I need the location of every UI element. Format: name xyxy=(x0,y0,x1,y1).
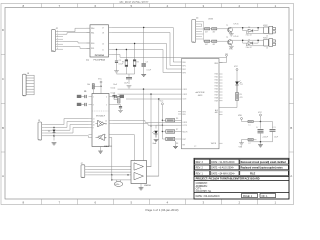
transistor Q2 xyxy=(222,40,233,45)
wire crystal top rail xyxy=(112,179,131,181)
connector J4 pins xyxy=(196,22,200,40)
resistor R3 vertical xyxy=(122,50,128,75)
inductor L2 xyxy=(248,138,257,144)
svg-text:ADDRESS:: ADDRESS: xyxy=(196,185,208,188)
junction dot C2 xyxy=(116,49,117,50)
ground below C4 xyxy=(127,86,132,88)
junction dot corner A xyxy=(143,88,144,89)
connector J3 xyxy=(38,122,42,140)
capacitor C13 electrolytic xyxy=(256,127,269,142)
junction dot bottom xyxy=(260,141,262,143)
row2 return wire xyxy=(246,43,263,46)
bottom rail xyxy=(248,141,273,143)
svg-text:10: 10 xyxy=(93,124,95,126)
resistor R11a row2 xyxy=(204,40,210,46)
connector J7 xyxy=(81,165,85,178)
junction dot J3.5 xyxy=(53,135,55,137)
svg-text:CLKI: CLKI xyxy=(183,99,187,101)
svg-text:DATE: <6-AUG-2004>: DATE: <6-AUG-2004> xyxy=(211,167,234,170)
Q1 emitter ground xyxy=(229,34,234,36)
IC U2 driver triangle 1 xyxy=(98,120,105,127)
wire U2 pin down to U4 xyxy=(109,135,135,161)
junction dot corner C xyxy=(158,98,159,99)
svg-text:17: 17 xyxy=(102,27,104,29)
svg-text:fLPuS: fLPuS xyxy=(234,36,240,38)
IC U2 pin labels xyxy=(93,96,107,139)
IC U1 left pin stubs xyxy=(87,28,91,48)
wire bus3 xyxy=(112,44,182,70)
wire J3.5 gnd xyxy=(45,136,54,141)
junction dot R3 xyxy=(126,49,127,50)
resistor R10a row1 xyxy=(204,28,210,34)
page cell box xyxy=(242,194,258,198)
rev row 1 text xyxy=(196,161,287,164)
wire bus4 xyxy=(112,50,182,73)
wire J7.3 to U4 xyxy=(88,171,131,173)
transistor Q1 xyxy=(222,27,233,32)
svg-text:PROJECT: PIC16/24 TURNTABLE: PROJECT: PIC16/24 TURNTABLE/INTERFACE BO… xyxy=(196,178,260,181)
zone letters right xyxy=(290,28,293,178)
resistor R12 vertical xyxy=(118,97,120,103)
svg-text:VCC: VCC xyxy=(98,79,103,81)
svg-text:RB0: RB0 xyxy=(91,43,94,45)
sheet outer border xyxy=(1,4,294,205)
IC U2 internal split xyxy=(92,110,109,112)
wire U2 R1IN to U3 xyxy=(113,124,182,126)
svg-text:3: 3 xyxy=(93,104,94,106)
svg-text:13: 13 xyxy=(105,123,107,125)
rail joining R3 R4 xyxy=(117,74,135,76)
svg-text:VCC: VCC xyxy=(234,66,239,68)
svg-text:COUNTRY: NL: COUNTRY: NL xyxy=(196,191,212,193)
connector J2 pins xyxy=(56,32,64,50)
svg-text:RA0: RA0 xyxy=(91,27,94,30)
svg-text:RF1: RF1 xyxy=(183,65,186,67)
junction dot corner B xyxy=(150,93,151,94)
svg-text:REV: 1: REV: 1 xyxy=(196,173,204,175)
svg-text:11: 11 xyxy=(102,49,104,51)
svg-text:COMPANY:: COMPANY: xyxy=(196,182,208,185)
IC U2 left pin stubs xyxy=(89,97,93,138)
resistor R4 vertical xyxy=(133,44,139,75)
svg-text:5: 5 xyxy=(106,104,107,106)
connector J8 body xyxy=(23,74,27,96)
svg-text:8: 8 xyxy=(105,137,106,139)
wire J3.3 to U2 xyxy=(45,125,89,131)
svg-text:RF5: RF5 xyxy=(183,114,186,116)
svg-text:11: 11 xyxy=(93,118,95,120)
svg-text:HDR2: HDR2 xyxy=(263,37,268,39)
svg-text:D1: D1 xyxy=(150,126,152,128)
svg-text:Replaced overall (optocoupler): Replaced overall (optocoupler) notes xyxy=(241,167,284,170)
row1 top wire xyxy=(235,28,263,31)
connector J3 pins xyxy=(42,125,45,136)
wire J3.2 to U2 xyxy=(45,122,89,128)
resistor R10b row1 xyxy=(210,28,222,34)
rev row 2 text xyxy=(196,167,284,170)
wire bus2 xyxy=(112,33,182,66)
resistor R7 xyxy=(162,129,181,133)
svg-text:4MHz: 4MHz xyxy=(115,184,119,186)
ground bottom rail xyxy=(258,145,263,147)
svg-text:J6: J6 xyxy=(266,48,268,50)
svg-text:Page 1 of 1 (04-jan-2013): Page 1 of 1 (04-jan-2013) xyxy=(146,208,179,212)
svg-text:R8: R8 xyxy=(176,143,178,145)
svg-text:T2: T2 xyxy=(226,37,228,39)
rev row 3 cells xyxy=(195,171,289,176)
ground J3 xyxy=(52,143,57,145)
svg-text:18: 18 xyxy=(102,32,104,34)
svg-text:D2: D2 xyxy=(241,84,243,86)
AVDD stem to U3 xyxy=(219,56,227,62)
ground U4 xyxy=(139,188,144,190)
svg-text:dsPIC30F: dsPIC30F xyxy=(195,92,205,94)
inductor L1 xyxy=(248,120,261,126)
svg-text:10k: 10k xyxy=(87,84,90,86)
svg-text:REV: 2: REV: 2 xyxy=(196,168,204,170)
relay box row2 xyxy=(263,37,268,46)
svg-text:+100uF: +100uF xyxy=(262,137,269,139)
svg-text:D5: D5 xyxy=(48,131,50,133)
capacitor C7 left of U2 xyxy=(77,103,86,106)
VCC node symbol xyxy=(258,112,263,122)
svg-text:RD5: RD5 xyxy=(215,89,218,91)
svg-text:A: A xyxy=(290,174,292,178)
capacitor C8 right of U2 xyxy=(115,95,124,98)
svg-text:B: B xyxy=(290,126,292,130)
wire U2 pin down to crystal rail xyxy=(109,138,112,180)
svg-text:VDD: VDD xyxy=(238,115,243,117)
svg-text:470: 470 xyxy=(240,97,243,99)
svg-text:RF2: RF2 xyxy=(183,69,186,71)
svg-text:R7: R7 xyxy=(176,129,178,131)
svg-text:RD8: RD8 xyxy=(215,98,218,100)
svg-text:4k7: 4k7 xyxy=(213,44,216,46)
zone tick marks left and right xyxy=(1,55,294,153)
IC U3 extra left stubs xyxy=(178,112,182,115)
Q2 collector wire xyxy=(231,40,235,46)
rev row 3 text xyxy=(196,172,256,175)
connector J4 xyxy=(192,19,196,42)
svg-text:4k7: 4k7 xyxy=(205,31,208,33)
svg-text:74xx 44: 74xx 44 xyxy=(246,35,252,37)
J4 bus verticals xyxy=(200,22,204,42)
wire U3 to U4 corner A xyxy=(118,89,182,160)
company cell xyxy=(196,182,212,193)
svg-text:12: 12 xyxy=(93,121,95,123)
svg-text:MC_98-97 I/U750+ SH/77: MC_98-97 I/U750+ SH/77 xyxy=(120,1,149,4)
svg-text:1: 1 xyxy=(93,96,94,98)
zone numbers bottom xyxy=(22,200,276,204)
capacitor C10 xyxy=(112,93,118,100)
svg-text:T1: T1 xyxy=(226,25,228,27)
AVDD symbol xyxy=(226,49,234,57)
svg-text:RD9: RD9 xyxy=(215,101,218,103)
svg-text:D4: D4 xyxy=(248,39,250,41)
svg-text:OF: 1: OF: 1 xyxy=(262,195,269,198)
IC U4 opamp triangle 2 xyxy=(134,172,144,179)
capacitor C2 xyxy=(115,50,124,67)
svg-text:RD6: RD6 xyxy=(215,92,218,94)
wire J3.5 on to U2 xyxy=(54,136,89,138)
junction dot crystal rail xyxy=(111,179,112,180)
svg-text:RA1: RA1 xyxy=(91,31,94,34)
IC U3 left pin names xyxy=(183,62,189,141)
IC U3 body xyxy=(182,59,220,149)
junction dot MCLR xyxy=(100,86,101,87)
VCC symbol reset xyxy=(160,101,164,105)
svg-text:4k7: 4k7 xyxy=(213,31,216,33)
svg-text:RB1: RB1 xyxy=(91,48,94,50)
svg-text:8: 8 xyxy=(57,48,58,50)
resistor R8 xyxy=(162,137,181,145)
wire J7.1 to U4 xyxy=(88,166,131,168)
capacitor C14 xyxy=(270,127,279,142)
Q2 emitter ground xyxy=(229,46,234,48)
sheet inner border xyxy=(5,8,289,200)
row border lines xyxy=(194,176,289,192)
IC U2 right pin stubs xyxy=(109,97,113,124)
svg-text:RD4: RD4 xyxy=(215,86,218,88)
svg-text:RD1: RD1 xyxy=(215,77,218,79)
IC U4 right pins xyxy=(147,167,159,177)
rev row 2 cells xyxy=(195,165,289,170)
wire U3 to U4 corner B xyxy=(118,94,182,166)
svg-text:R6: R6 xyxy=(176,118,178,120)
svg-text:C#1: C#1 xyxy=(273,127,276,129)
svg-text:7: 7 xyxy=(105,135,106,137)
svg-text:R4: R4 xyxy=(137,62,139,64)
zone numbers top xyxy=(22,4,276,8)
svg-text:B: B xyxy=(2,126,4,130)
IC U1 pin name texts xyxy=(91,27,104,51)
svg-text:RD0: RD0 xyxy=(215,74,218,76)
svg-text:VCC: VCC xyxy=(258,112,263,114)
svg-text:9: 9 xyxy=(93,127,94,129)
IC U1 right pin stubs xyxy=(109,28,113,55)
junction dot on RX wire xyxy=(162,125,163,126)
svg-text:DATE: <11-NOV-2004>: DATE: <11-NOV-2004> xyxy=(211,161,235,164)
svg-text:4: 4 xyxy=(106,96,107,98)
wire J2.1 to U1 xyxy=(63,28,90,32)
wire U3 to U4 corner C xyxy=(126,99,182,176)
svg-text:TxPCS: TxPCS xyxy=(211,143,217,145)
svg-text:RD7: RD7 xyxy=(215,95,218,97)
junction dot C3 xyxy=(143,27,144,28)
plug J6 row2 xyxy=(266,39,276,50)
wire J2.7 to U1 xyxy=(63,47,90,49)
svg-text:PIC16F84: PIC16F84 xyxy=(95,54,105,57)
svg-text:REV: 3: REV: 3 xyxy=(196,162,204,164)
wire VCC to R5 xyxy=(93,85,101,87)
Q1 collector wire xyxy=(231,28,235,34)
svg-text:4k7: 4k7 xyxy=(205,44,208,46)
IC U4 opamp triangle 1 xyxy=(134,163,144,170)
svg-text:C?: C? xyxy=(194,146,196,148)
IC U4 body xyxy=(131,161,147,184)
ground near U3 corner xyxy=(173,146,178,148)
svg-text:FILE: FILE xyxy=(250,172,256,175)
svg-text:RF0: RF0 xyxy=(183,62,186,64)
IC U2 driver triangle 2 xyxy=(98,134,105,141)
resistor R11b row2 xyxy=(210,40,222,46)
connector J8 pin grid xyxy=(26,75,34,95)
plug J5 row1 xyxy=(266,26,276,37)
title block outline xyxy=(194,158,289,199)
svg-text:DATE: <24-MAY-2004>: DATE: <24-MAY-2004> xyxy=(211,172,235,175)
crystal X1 xyxy=(114,180,123,187)
svg-text:C#: C# xyxy=(256,127,258,129)
svg-text:C3: C3 xyxy=(146,61,148,63)
svg-text:OSC1: OSC1 xyxy=(183,89,188,91)
VCC LED xyxy=(234,66,239,82)
diode D5 xyxy=(48,127,55,136)
wire J7.4 to U4 xyxy=(88,174,131,176)
capacitor C9 right of U2 drop xyxy=(113,105,123,111)
resistor R9 vertical xyxy=(219,93,243,108)
ground D1 xyxy=(154,140,159,142)
vertical feed wire xyxy=(161,105,163,139)
junction dots row2 xyxy=(242,39,244,41)
svg-text:IC2(1): IC2(1) xyxy=(111,87,116,89)
capacitor C4 electrolytic xyxy=(124,76,132,84)
svg-text:HDR2: HDR2 xyxy=(263,25,268,27)
capacitor C6 left of U2 xyxy=(77,95,86,98)
AVSS symbol xyxy=(238,140,248,149)
svg-text:L1: L1 xyxy=(249,125,251,127)
svg-text:A: A xyxy=(2,174,4,178)
of cell box xyxy=(260,194,276,198)
wire J3.4 to U2 xyxy=(45,128,89,134)
connector J2 pin numbers xyxy=(57,30,58,50)
svg-text:RD2: RD2 xyxy=(215,80,218,82)
svg-text:LM358: LM358 xyxy=(144,185,151,187)
zone tick marks bottom xyxy=(41,199,257,205)
LED D2 xyxy=(235,81,243,93)
svg-text:MCLR: MCLR xyxy=(183,131,189,133)
wire bus1 xyxy=(112,28,182,63)
top rail xyxy=(261,122,273,129)
LED D1 xyxy=(150,125,162,137)
wire J3.1 to U2 xyxy=(45,119,89,125)
svg-text:C5: C5 xyxy=(84,91,86,93)
svg-text:RF3: RF3 xyxy=(183,72,186,74)
svg-text:Removed circuit (overall) smal: Removed circuit (overall) small clarifie… xyxy=(241,161,287,164)
VDD symbol xyxy=(238,115,248,121)
junction dot VCC node xyxy=(260,121,262,123)
resistor R6 xyxy=(162,118,181,122)
rev row 1 cells xyxy=(195,159,289,164)
IC U2 body xyxy=(92,94,109,147)
svg-text:1SMB: 1SMB xyxy=(208,19,214,21)
ground below C3 xyxy=(141,74,146,76)
svg-text:(C): (C) xyxy=(86,59,89,61)
row1 return wire xyxy=(246,31,263,34)
wire VCC dn to U2 xyxy=(100,86,102,93)
diode D4 xyxy=(243,39,258,44)
zone letters left xyxy=(2,28,5,178)
IC U1 body xyxy=(90,25,109,57)
wire J2.2 to U1 xyxy=(63,33,90,35)
junction dot R4 xyxy=(134,43,135,44)
svg-text:10: 10 xyxy=(102,43,104,45)
svg-text:C2: C2 xyxy=(119,60,121,62)
junction dots row1 xyxy=(242,27,244,29)
svg-text:R9: R9 xyxy=(240,94,242,96)
row2 top wire xyxy=(235,40,263,43)
ground below U2 xyxy=(98,151,103,153)
capacitor C3 xyxy=(142,28,152,75)
diode D3 xyxy=(243,27,258,32)
IC U3 right pin stubs xyxy=(219,63,223,144)
svg-text:DATE: <04-JAN-2013>: DATE: <04-JAN-2013> xyxy=(196,195,221,198)
ground below C2 xyxy=(114,71,119,73)
wire U2 T1OUT to U3 xyxy=(113,121,182,123)
svg-text:MAX232: MAX232 xyxy=(104,145,113,148)
junction dots feed xyxy=(162,120,163,121)
connector J2 xyxy=(51,30,55,52)
junction dots J7 wires xyxy=(127,174,128,175)
svg-text:SP232ACP: SP232ACP xyxy=(96,115,106,118)
svg-text:fLPuS: fLPuS xyxy=(234,24,240,26)
connector J7 pins xyxy=(85,167,88,175)
VCC symbol xyxy=(98,79,103,87)
svg-text:74xx 44: 74xx 44 xyxy=(246,47,252,49)
svg-text:AN1: AN1 xyxy=(215,111,218,114)
svg-text:PIC16F84A: PIC16F84A xyxy=(94,58,106,61)
svg-text:L2: L2 xyxy=(249,143,251,145)
wire J7.2 to U4 xyxy=(88,168,131,170)
wire J2.5 to U1 xyxy=(63,42,90,43)
svg-text:RD3: RD3 xyxy=(215,83,218,85)
svg-text:R3: R3 xyxy=(122,62,124,64)
AVDD feed wire xyxy=(112,55,227,58)
relay box row1 xyxy=(263,25,268,34)
zone tick marks top xyxy=(41,4,257,8)
svg-text:IC2(2): IC2(2) xyxy=(111,92,116,94)
ground right of U2 xyxy=(118,110,123,112)
svg-text:OSC2: OSC2 xyxy=(183,94,188,96)
svg-text:RST: RST xyxy=(183,139,186,141)
resistor R5 vertical dark xyxy=(87,84,94,94)
IC U3 right pin names xyxy=(211,63,219,145)
svg-text:PAGE: 1: PAGE: 1 xyxy=(243,195,253,198)
svg-text:D3: D3 xyxy=(248,27,250,29)
svg-text:14: 14 xyxy=(105,120,107,122)
